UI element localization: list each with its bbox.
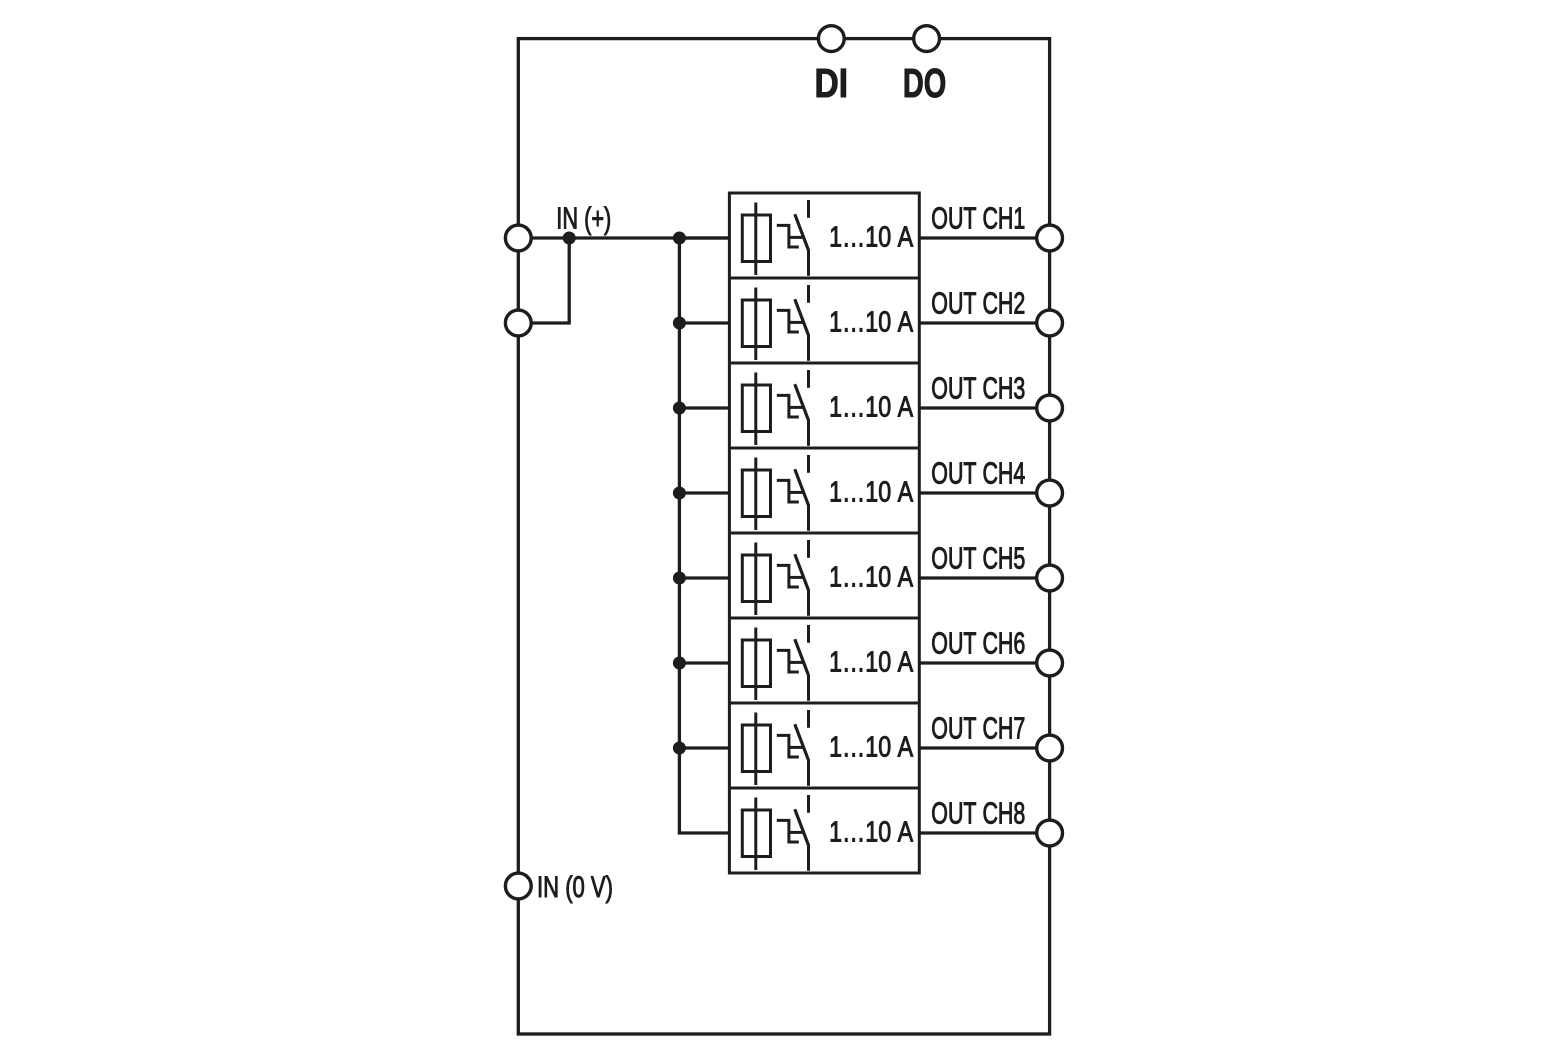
svg-text:OUT CH8: OUT CH8 — [931, 796, 1025, 831]
switch CH4 (electronic breaker contact) — [777, 455, 809, 531]
switch CH6 (electronic breaker contact) — [777, 625, 809, 701]
junction IN(+) branch — [563, 232, 576, 245]
wire bus to CH5 block — [679, 576, 729, 579]
svg-text:IN (+): IN (+) — [556, 203, 611, 236]
svg-text:1…10 A: 1…10 A — [829, 477, 913, 509]
terminal IN (+) upper — [505, 225, 531, 251]
block separator 3 — [729, 447, 919, 450]
svg-text:OUT CH6: OUT CH6 — [931, 626, 1025, 661]
fuse CH2 — [742, 288, 770, 361]
terminal OUT CH3 — [1037, 395, 1063, 421]
svg-text:1…10 A: 1…10 A — [829, 732, 913, 764]
fuse CH3 — [742, 373, 770, 446]
wire bus to CH7 block — [679, 746, 729, 749]
terminal OUT CH2 — [1037, 310, 1063, 336]
svg-text:1…10 A: 1…10 A — [829, 647, 913, 679]
terminal OUT CH8 — [1037, 820, 1063, 846]
terminal OUT CH7 — [1037, 735, 1063, 761]
switch CH8 (electronic breaker contact) — [777, 795, 809, 871]
fuse block column frame — [729, 193, 919, 873]
fuse CH5 — [742, 543, 770, 616]
block separator 1 — [729, 277, 919, 280]
switch CH7 (electronic breaker contact) — [777, 710, 809, 786]
junction bus CH7 — [673, 742, 686, 755]
wire bus to CH2 block — [679, 321, 729, 324]
terminal DO — [914, 26, 940, 52]
junction bus CH4 — [673, 487, 686, 500]
svg-text:DI: DI — [815, 60, 849, 106]
fuse CH8 — [742, 798, 770, 871]
block separator 4 — [729, 532, 919, 535]
junction bus CH1 — [673, 232, 686, 245]
wire CH2 output — [919, 321, 1049, 324]
wire IN(+) second terminal branch — [518, 238, 569, 323]
block separator 5 — [729, 617, 919, 620]
wire bus to CH4 block — [679, 491, 729, 494]
terminal IN (+) lower — [505, 310, 531, 336]
fuse CH1 — [742, 203, 770, 276]
wire IN(+) to fuse column bus — [518, 236, 729, 239]
svg-text:DO: DO — [903, 60, 947, 106]
switch CH3 (electronic breaker contact) — [777, 370, 809, 446]
terminal OUT CH6 — [1037, 650, 1063, 676]
terminal IN (0 V) — [505, 873, 531, 899]
junction bus CH6 — [673, 657, 686, 670]
wire CH7 output — [919, 746, 1049, 749]
switch CH1 (electronic breaker contact) — [777, 200, 809, 276]
fuse CH4 — [742, 458, 770, 531]
terminal DI — [818, 26, 844, 52]
block separator 7 — [729, 787, 919, 790]
fuse CH6 — [742, 628, 770, 701]
switch CH2 (electronic breaker contact) — [777, 285, 809, 361]
svg-text:1…10 A: 1…10 A — [829, 817, 913, 849]
block separator 6 — [729, 702, 919, 705]
wire CH3 output — [919, 406, 1049, 409]
svg-text:OUT CH5: OUT CH5 — [931, 541, 1025, 576]
junction bus CH3 — [673, 402, 686, 415]
svg-text:IN (0 V): IN (0 V) — [537, 871, 613, 904]
wire bus to CH3 block — [679, 406, 729, 409]
svg-text:1…10 A: 1…10 A — [829, 562, 913, 594]
terminal OUT CH4 — [1037, 480, 1063, 506]
block separator 2 — [729, 362, 919, 365]
wire bus corner to CH8 block — [678, 831, 730, 834]
svg-text:OUT CH1: OUT CH1 — [931, 201, 1025, 236]
wire CH6 output — [919, 661, 1049, 664]
wire CH4 output — [919, 491, 1049, 494]
switch CH5 (electronic breaker contact) — [777, 540, 809, 616]
wire supply bus vertical — [678, 238, 681, 833]
svg-text:1…10 A: 1…10 A — [829, 392, 913, 424]
svg-text:1…10 A: 1…10 A — [829, 307, 913, 339]
module outline — [518, 39, 1049, 1034]
junction bus CH5 — [673, 572, 686, 585]
terminal OUT CH5 — [1037, 565, 1063, 591]
wire bus to CH1 block — [679, 236, 729, 239]
svg-text:1…10 A: 1…10 A — [829, 222, 913, 254]
svg-text:OUT CH2: OUT CH2 — [931, 286, 1025, 321]
terminal OUT CH1 — [1037, 225, 1063, 251]
junction bus CH2 — [673, 317, 686, 330]
wire CH8 output — [919, 831, 1049, 834]
svg-text:OUT CH3: OUT CH3 — [931, 371, 1025, 406]
wire CH1 output — [919, 236, 1049, 239]
wire bus to CH6 block — [679, 661, 729, 664]
svg-text:OUT CH4: OUT CH4 — [931, 456, 1025, 491]
svg-text:OUT CH7: OUT CH7 — [931, 711, 1025, 746]
wire CH5 output — [919, 576, 1049, 579]
fuse CH7 — [742, 713, 770, 786]
